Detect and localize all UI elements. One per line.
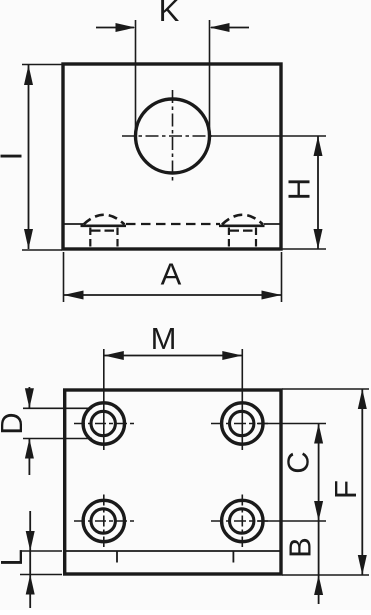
dimension I: extension lines [22, 65, 62, 251]
hole bottom-right: crosshair and C extension line [211, 520, 268, 522]
hole top-right: inner circle [230, 411, 254, 435]
dimension F: extension line top [282, 388, 369, 390]
svg-text:I: I [0, 152, 29, 161]
dimension K: dimension line with outside arrows [96, 23, 249, 32]
hole bottom-right: outer circle [222, 500, 263, 541]
front view: bottom step hidden line (dashed middle) [126, 223, 220, 225]
dimension C: dimension line with arrows [314, 424, 323, 522]
front view: bore horizontal centerline [122, 135, 212, 137]
hole bottom-right: inner circle [230, 509, 254, 533]
svg-text:M: M [151, 321, 177, 356]
dimension B: dimension line and bottom outside arrow [314, 521, 323, 604]
dimension F: dimension line with arrows [358, 389, 367, 575]
hole top-right: crosshair and C extension line [211, 423, 268, 425]
svg-text:D: D [0, 412, 29, 434]
front view: part outline [63, 64, 281, 249]
dimension D: extension lines [23, 408, 92, 438]
svg-text:K: K [159, 0, 180, 28]
right screw: recess bottom hidden line [230, 230, 256, 232]
right screw: seat line [219, 224, 265, 227]
right screw: hidden hole lines [229, 228, 256, 249]
hole top-left: outer circle [83, 403, 124, 444]
svg-text:H: H [282, 178, 317, 200]
left screw: seat line [81, 224, 127, 227]
front view: bore circle [136, 99, 210, 173]
hole top-right: outer circle [222, 403, 263, 444]
right screw: dome hidden arc [222, 215, 263, 225]
dimension A: extension lines [64, 252, 282, 302]
svg-text:A: A [161, 257, 182, 292]
hole bottom-right: crosshair [241, 495, 243, 548]
bottom view: part outline [65, 390, 281, 574]
bottom view: strip tick right [232, 552, 234, 563]
hole bottom-left: crosshair [74, 495, 135, 548]
left screw: dome hidden arc [84, 215, 125, 225]
hole top-left: crosshair [74, 423, 135, 425]
dimension I: dimension line with arrows [24, 65, 33, 249]
dimension K: extension lines [136, 20, 210, 130]
left screw: hidden hole lines [90, 228, 117, 249]
front view: bore vertical centerline [172, 90, 174, 181]
hole bottom-left: outer circle [83, 500, 124, 541]
dimension F: extension line bottom [282, 574, 369, 576]
dimension D: dimension line with outside arrows [25, 387, 34, 475]
dimension M: extension lines down through top holes [104, 349, 243, 450]
dimension H: extension line at bore center [210, 135, 326, 137]
dimension A: dimension line with arrows [64, 291, 282, 300]
dimension L: extension lines [20, 551, 62, 575]
bottom view: flange strip top line [65, 550, 281, 552]
dimension M: dimension line with arrows [104, 351, 243, 360]
svg-text:B: B [282, 537, 317, 558]
dimension L: dimension line with outside arrows [26, 511, 35, 608]
svg-text:F: F [328, 480, 363, 499]
svg-text:C: C [281, 451, 316, 473]
hole top-left: inner circle [91, 411, 115, 435]
svg-text:L: L [0, 549, 29, 566]
dimension H: extension line at bottom [282, 248, 326, 250]
front view: bottom step line (solid left) [63, 223, 83, 225]
hole bottom-left: inner circle [91, 509, 115, 533]
left screw: recess bottom hidden line [91, 230, 117, 232]
bottom view: strip tick left [116, 552, 118, 563]
front view: bottom step line (solid right) [264, 223, 281, 225]
dimension H: dimension line with arrows [314, 136, 323, 249]
